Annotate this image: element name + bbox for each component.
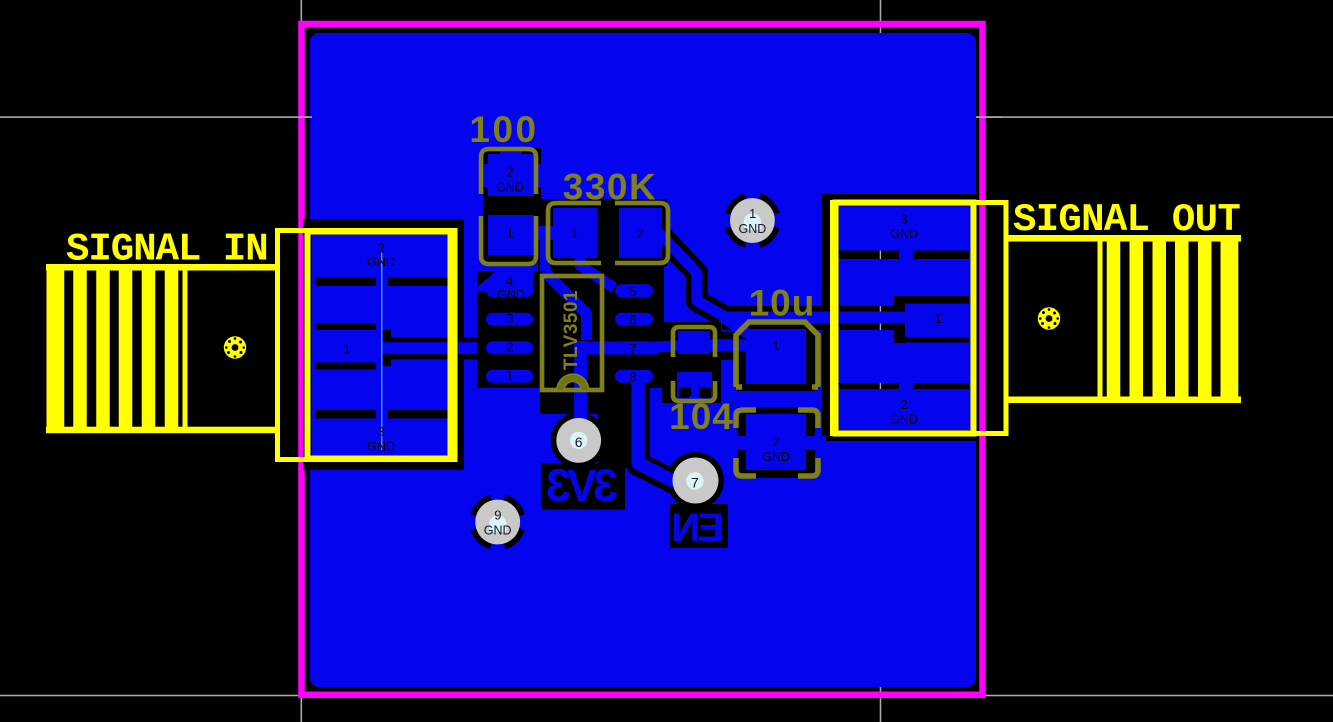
capacitor C2 pad2 xyxy=(677,372,712,400)
J1 signal trace clearance lower xyxy=(383,354,483,359)
J1 pad clearance band A xyxy=(315,278,450,287)
text EN clearance box xyxy=(670,504,728,548)
svg-text:1: 1 xyxy=(506,368,513,383)
resistor R2 pad2 xyxy=(619,208,662,258)
via V6 pad xyxy=(556,418,601,463)
U1 lower clearance xyxy=(540,384,614,414)
svg-text:2: 2 xyxy=(377,241,384,256)
capacitor C1 pad1 outline xyxy=(736,322,818,387)
svg-text:330K: 330K xyxy=(563,167,657,208)
capacitor C2 pad1 xyxy=(678,331,710,354)
U1 pin2 pad xyxy=(486,341,533,354)
svg-text:GND: GND xyxy=(890,413,918,427)
sheet origin line horizontal bottom xyxy=(0,695,1333,697)
capacitor C2 clearance xyxy=(662,322,721,403)
text 3V3 clearance box xyxy=(541,464,625,510)
svg-text:2: 2 xyxy=(900,397,907,412)
svg-text:SIGNAL OUT: SIGNAL OUT xyxy=(1013,198,1240,242)
resistor R2 courtyard left bracket xyxy=(548,203,601,263)
capacitor C1 pad2 corner brackets xyxy=(736,410,818,476)
via V9 pad xyxy=(475,500,520,545)
svg-text:8: 8 xyxy=(629,370,636,385)
svg-text:GND: GND xyxy=(762,450,790,464)
svg-text:1: 1 xyxy=(506,226,513,241)
J1 silkscreen frame outer xyxy=(278,231,456,460)
via V9 GND thermal arcs xyxy=(474,498,522,546)
svg-text:100: 100 xyxy=(469,109,538,150)
resistor R1 pad1 xyxy=(488,215,534,255)
wire U1 center vertical to via V6 xyxy=(574,341,587,443)
svg-text:5: 5 xyxy=(629,284,636,299)
sheet line over magenta crossings xyxy=(976,116,1002,118)
via V1 pad xyxy=(730,198,775,243)
capacitor C1 pad1 clearance xyxy=(737,324,815,392)
J2 pad copper base xyxy=(834,202,971,430)
via V7 clearance ring xyxy=(667,452,724,509)
J2 silkscreen frame inner xyxy=(836,203,974,434)
wire junction into C1.1 xyxy=(726,319,748,334)
svg-text:6: 6 xyxy=(575,434,583,450)
U1 pin3 pad xyxy=(486,313,533,326)
copper pour (bottom copper zone GND) xyxy=(310,33,976,687)
R1 pad2 thermal spokes xyxy=(500,144,522,158)
op-amp U1 clearance xyxy=(477,271,664,388)
sheet origin line horizontal top xyxy=(0,116,1333,118)
wire C2.1 to C1.1 clearance xyxy=(716,331,742,360)
J2 pad clearance band C xyxy=(894,337,969,343)
J2 pad clearance band D xyxy=(836,383,969,389)
connector J2 zone clearance xyxy=(822,194,978,441)
svg-text:3: 3 xyxy=(506,311,513,326)
svg-text:9: 9 xyxy=(494,508,501,523)
resistor R1 courtyard bottom bracket xyxy=(481,216,536,264)
ratsnest line J1 xyxy=(381,252,382,450)
J1 pad clearance band C xyxy=(315,363,381,370)
U1 pin4 pad xyxy=(486,284,533,297)
J1 pad clearance band D xyxy=(315,410,450,419)
svg-text:3: 3 xyxy=(377,424,384,439)
svg-text:GND: GND xyxy=(739,222,767,236)
svg-text:6: 6 xyxy=(629,313,636,328)
wire R2.1 stub to U1 pin5 xyxy=(580,252,614,288)
capacitor C1 pad1 xyxy=(746,329,806,384)
capacitor C2 courtyard bottom bracket xyxy=(673,381,715,401)
svg-text:GND: GND xyxy=(367,255,395,269)
U1 pin8 pad xyxy=(615,370,653,383)
J2 neck step clearance lower xyxy=(894,324,905,344)
U1 pin7 pad xyxy=(615,341,653,354)
wire R2.2 to C1.1 xyxy=(658,232,724,316)
J2 neck step clearance upper xyxy=(894,296,905,312)
resistor R2 pad1 xyxy=(553,208,597,258)
svg-text:1: 1 xyxy=(934,311,941,326)
capacitor C2 courtyard top bracket xyxy=(673,327,715,357)
wire junction down xyxy=(540,230,551,271)
wire R2.2 to C1.1 clearance xyxy=(658,232,722,315)
svg-text:TLV3501: TLV3501 xyxy=(561,290,582,370)
svg-text:10u: 10u xyxy=(749,283,816,324)
J2 pad clearance band A xyxy=(836,251,969,260)
svg-text:7: 7 xyxy=(691,475,699,491)
svg-text:7: 7 xyxy=(629,341,636,356)
via V7 pad xyxy=(673,458,719,504)
J1 pad copper base xyxy=(312,230,452,458)
C2 pad2 thermal spoke xyxy=(689,396,700,412)
wire output to J2.1 xyxy=(720,312,907,324)
J2 SMA body hatched box xyxy=(1007,235,1241,403)
U1 pin6 pad xyxy=(615,313,653,326)
wire R1.1 to R2.1 xyxy=(529,226,553,240)
via V6 clearance ring xyxy=(551,412,607,468)
via V1 GND thermal arcs xyxy=(728,196,776,244)
J2 pad clearance band B xyxy=(894,296,969,304)
svg-text:2: 2 xyxy=(636,226,643,241)
svg-text:3V3: 3V3 xyxy=(547,460,618,511)
U1 pin4 pour wedge xyxy=(477,272,533,292)
resistor R1 courtyard top bracket xyxy=(481,149,536,194)
board outline (Edge.Cuts) xyxy=(302,24,983,695)
svg-text:2: 2 xyxy=(506,340,513,355)
U1 pin1 dome marker xyxy=(557,374,589,390)
J2 silkscreen frame outer xyxy=(833,203,1007,434)
resistor R1 pad2 xyxy=(488,154,534,196)
svg-text:1: 1 xyxy=(343,342,350,357)
resistor R1 clearance xyxy=(483,148,541,263)
svg-text:SIGNAL IN: SIGNAL IN xyxy=(66,228,268,272)
svg-text:EN: EN xyxy=(673,506,724,550)
J1 signal trace clearance upper xyxy=(383,337,483,342)
resistor R2 courtyard right bracket xyxy=(615,203,668,263)
svg-text:GND: GND xyxy=(496,181,524,195)
J1 silkscreen frame inner xyxy=(308,232,451,459)
svg-text:2: 2 xyxy=(772,434,779,449)
svg-text:GND: GND xyxy=(497,288,525,302)
svg-text:4: 4 xyxy=(506,274,513,289)
svg-text:104: 104 xyxy=(669,396,734,437)
svg-text:3: 3 xyxy=(900,212,907,227)
wire U1 pin7 to C2.1 xyxy=(650,345,690,348)
wire branch to U1 pin7 xyxy=(576,342,658,355)
wire U1 pin8 to via V7 xyxy=(638,380,675,482)
wire U1 pin8 to via7 clearance xyxy=(638,382,672,481)
capacitor C1 pad2 clearance xyxy=(737,407,815,478)
sheet line over J2 clearances xyxy=(880,251,881,260)
svg-text:1: 1 xyxy=(749,206,756,221)
J1 center pin pad xyxy=(224,336,246,358)
resistor R2 clearance xyxy=(538,199,667,266)
sheet origin line vertical left xyxy=(301,0,303,722)
J1 pad clearance band B xyxy=(315,324,381,331)
svg-text:GND: GND xyxy=(367,440,395,454)
J1 thermal spoke strip xyxy=(376,276,388,420)
svg-text:GND: GND xyxy=(890,227,918,241)
connector J1 zone clearance xyxy=(303,219,464,470)
svg-text:GND: GND xyxy=(484,523,512,537)
capacitor C1 pad2 xyxy=(746,414,806,470)
svg-text:2: 2 xyxy=(506,165,513,180)
J2 signal trace clearance channel xyxy=(722,306,899,330)
svg-text:1: 1 xyxy=(772,338,779,353)
C1 pad2 thermal spokes xyxy=(726,436,748,450)
svg-text:1: 1 xyxy=(571,226,578,241)
J2 thermal spoke strip xyxy=(899,250,913,260)
U1 pin5 pad xyxy=(615,284,653,297)
U1 pin1 pad xyxy=(486,370,533,383)
J1 SMA body hatched box xyxy=(46,264,280,433)
J2 center pin pad xyxy=(1038,307,1060,329)
sheet origin line vertical right xyxy=(880,0,882,722)
wire C2.1 to C1.1 xyxy=(700,339,752,352)
op-amp U1 outline xyxy=(542,276,602,390)
wire J1.1 to U1 pin2 xyxy=(379,342,495,354)
wire diagonal to U1 center xyxy=(544,271,587,340)
